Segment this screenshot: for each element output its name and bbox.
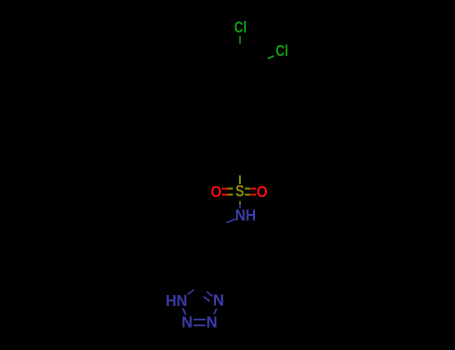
bond S=O right upper line, olive half <box>245 188 251 190</box>
bond C-S (vertical, olive half above S) <box>239 175 241 183</box>
bond C-Cl (vertical, green half) <box>239 36 241 44</box>
svg-text:N: N <box>182 315 193 332</box>
bond S-N vertical, blue half <box>239 205 241 208</box>
bond N-CH2 (blue half toward chain) <box>227 219 236 223</box>
svg-text:NH: NH <box>235 207 256 224</box>
bond S=O left lower line, olive half <box>227 194 233 196</box>
svg-text:N: N <box>213 292 224 309</box>
svg-text:HN: HN <box>166 293 188 310</box>
svg-text:O: O <box>211 184 222 201</box>
bond S=O left upper line, red half <box>222 188 227 190</box>
bond N4-N3 (full blue) <box>214 308 217 314</box>
bond S=O left lower line, red half <box>222 194 227 196</box>
bond S=O left upper line, olive half <box>227 188 233 190</box>
bond N1-N2 (full blue) <box>183 308 186 314</box>
bond C5=N4 outer line (blue half) <box>207 292 213 297</box>
bond S=O right upper line, red half <box>251 188 256 190</box>
bond N1-C5 (blue half up-right) <box>188 290 194 295</box>
bond C5=N4 inner line (blue half) <box>203 297 209 302</box>
svg-text:Cl: Cl <box>276 43 289 60</box>
bond S=O right lower line, red half <box>251 194 256 196</box>
bond N2=N3 lower line (full blue) <box>194 324 206 326</box>
bond S-N vertical, olive half <box>239 201 241 205</box>
bond N2=N3 upper line (full blue) <box>194 319 206 321</box>
bond S=O right lower line, olive half <box>245 194 251 196</box>
svg-text:N: N <box>206 315 217 332</box>
svg-text:Cl: Cl <box>234 19 247 36</box>
svg-text:O: O <box>257 184 268 201</box>
svg-text:S: S <box>235 183 244 201</box>
bond C-Cl (diagonal, green half) <box>268 56 274 59</box>
